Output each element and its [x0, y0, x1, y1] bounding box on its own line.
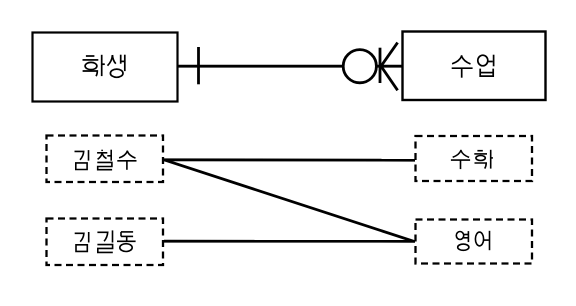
instance box 김길동	[47, 219, 164, 266]
label 수학	[451, 150, 493, 169]
link 김철수-수학	[164, 158, 415, 161]
link 김길동-영어	[164, 240, 415, 243]
instance box 수학	[416, 136, 533, 181]
optionality circle	[343, 50, 376, 83]
label 김철수	[75, 150, 137, 170]
label 학생	[83, 55, 125, 78]
relationship wire 학생-수업	[178, 65, 402, 68]
label 수업	[452, 55, 494, 78]
entity box 수업	[403, 32, 546, 101]
label 영어	[456, 231, 489, 250]
cardinality one tick	[197, 47, 200, 84]
crow's foot lower prong	[381, 66, 398, 90]
instance box 김철수	[47, 136, 164, 183]
entity box 학생	[33, 33, 178, 102]
crow's foot upper prong	[381, 43, 398, 67]
cardinality bar at 수업	[379, 48, 382, 83]
label 김길동	[75, 230, 136, 252]
link 김철수-영어	[164, 160, 414, 242]
instance box 영어	[416, 220, 533, 264]
